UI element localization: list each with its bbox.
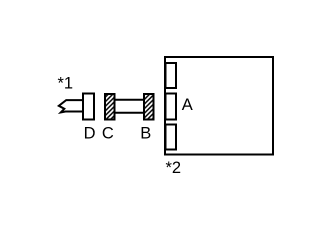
slot 1 [166,63,177,88]
svg-text:B: B [140,125,151,143]
bar between C and B [114,100,145,113]
collar D [83,94,94,120]
bushing C (hatched) [105,94,115,120]
shaft with torn tip (tool *1) [59,100,84,112]
housing (large rectangle *2) [165,57,273,155]
svg-text:*1: *1 [58,74,74,92]
svg-text:D: D [84,125,96,143]
svg-text:C: C [102,125,114,143]
slot 2 (A) [166,94,177,120]
bushing B (hatched) [144,94,154,120]
svg-text:*2: *2 [166,159,182,177]
svg-text:A: A [182,96,193,114]
slot 3 [166,125,177,150]
